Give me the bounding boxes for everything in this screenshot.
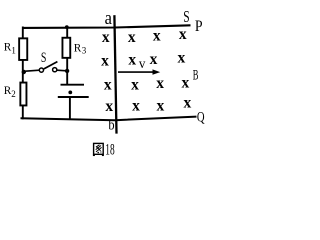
svg-text:x: x	[104, 77, 112, 94]
velocity arrow head	[153, 69, 161, 74]
switch S terminal left	[39, 68, 43, 72]
resistor R1	[19, 38, 27, 60]
wire battery to bottom rail	[69, 98, 71, 120]
switch S terminal right	[53, 68, 57, 72]
label R2	[4, 85, 16, 99]
svg-text:v: v	[139, 57, 146, 72]
svg-text:S: S	[41, 50, 47, 66]
junction node left of switch	[22, 70, 26, 74]
svg-text:B: B	[193, 67, 199, 83]
wire top rail a-P	[22, 25, 191, 28]
junction node right of switch	[65, 69, 69, 73]
label R1	[4, 41, 16, 55]
wire left branch upper segment	[22, 27, 24, 39]
svg-text:x: x	[179, 26, 187, 43]
svg-text:x: x	[105, 98, 113, 115]
battery top plate	[61, 84, 85, 86]
svg-text:1: 1	[11, 45, 16, 55]
svg-text:P: P	[195, 18, 203, 35]
svg-text:x: x	[184, 95, 192, 112]
wire below R2	[22, 106, 24, 120]
svg-text:R: R	[74, 43, 82, 55]
svg-text:x: x	[132, 98, 140, 115]
svg-text:b: b	[108, 118, 114, 134]
svg-text:x: x	[128, 29, 136, 46]
wire bottom rail b-Q	[21, 117, 197, 121]
svg-text:x: x	[131, 77, 139, 94]
wire switch left segment	[24, 70, 40, 71]
svg-text:3: 3	[82, 46, 87, 56]
battery bottom plate	[58, 96, 89, 98]
svg-text:x: x	[182, 75, 190, 92]
svg-text:x: x	[150, 51, 158, 68]
wire middle branch top segment	[66, 26, 68, 38]
junction node top of R3 branch	[65, 25, 69, 29]
svg-text:x: x	[156, 75, 164, 92]
wire switch right segment	[57, 69, 67, 72]
svg-text:x: x	[128, 51, 136, 68]
wire R3 to battery	[66, 58, 68, 85]
wire between R1 and R2	[22, 60, 24, 83]
label R3	[74, 43, 87, 56]
svg-text:x: x	[157, 97, 165, 114]
resistor R2	[20, 83, 26, 106]
rod ab	[114, 15, 116, 133]
switch S lever	[44, 62, 58, 69]
svg-text:x: x	[153, 28, 161, 45]
svg-text:S: S	[183, 7, 189, 26]
svg-text:18: 18	[105, 142, 114, 159]
velocity arrow shaft	[118, 71, 154, 73]
resistor R3	[62, 38, 70, 58]
svg-text:Q: Q	[197, 109, 205, 125]
svg-text:x: x	[101, 52, 109, 69]
svg-text:a: a	[105, 9, 112, 29]
battery middle dot	[68, 91, 72, 95]
svg-text:x: x	[102, 29, 110, 46]
caption hanzi tu (figure) drawn as glyph	[93, 143, 104, 155]
svg-text:x: x	[178, 50, 186, 67]
svg-text:2: 2	[11, 89, 16, 99]
